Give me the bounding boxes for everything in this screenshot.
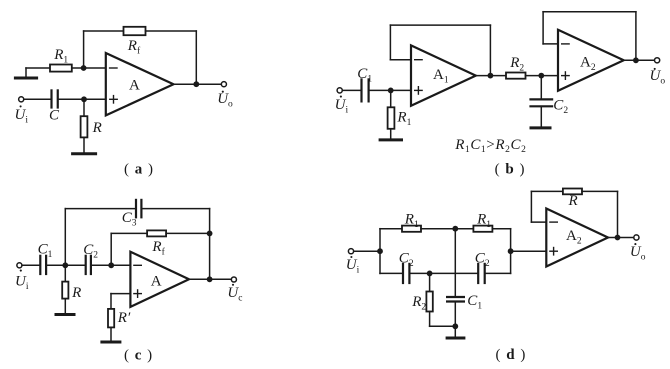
wire R' to ground (c): [110, 328, 112, 341]
minus sign (a): [110, 67, 117, 69]
wire Rf right segment (c): [166, 232, 210, 234]
resistor Rf (a): [124, 27, 146, 35]
wire feedback up A2 (b): [542, 12, 544, 44]
wire feedback up A1 (b): [389, 25, 391, 60]
wire down to R' (c): [110, 294, 112, 309]
capacitor C1 (c): [40, 256, 46, 274]
ground at R1 left end (a): [15, 68, 36, 78]
svg-text:C: C: [49, 107, 60, 123]
wire input to C (a): [24, 98, 50, 100]
node junction at output A2 (b): [633, 57, 639, 63]
svg-text:A: A: [129, 78, 140, 94]
svg-text:R: R: [92, 120, 102, 136]
wire R2 to plus input A2 (b): [526, 75, 559, 77]
wire output (d): [608, 237, 634, 239]
wire feedback left segment (a): [84, 30, 124, 32]
resistor R1 first (d): [402, 226, 421, 232]
wire output A2 (b): [624, 59, 655, 61]
wire minus stub A1 (b): [390, 59, 411, 61]
svg-text:A: A: [151, 274, 162, 290]
capacitor C (a): [52, 90, 58, 107]
wire C1 to ground node (d): [454, 303, 456, 327]
output terminal Uo (d): [634, 235, 639, 240]
op-amp A2 (d): [546, 209, 608, 267]
resistor R1 second (d): [473, 226, 492, 232]
svg-text:( d ): ( d ): [496, 347, 527, 363]
wire input to C1 (c): [22, 264, 40, 266]
svg-text:( c ): ( c ): [124, 347, 153, 363]
resistor R' (c): [108, 309, 114, 328]
node junction at output (c): [207, 276, 213, 282]
wire feedback right segment (a): [146, 30, 197, 32]
resistor Rf (c): [147, 230, 166, 236]
capacitor C3 (c): [136, 200, 141, 217]
resistor R2 (d): [426, 292, 432, 312]
wire center vertical to C1 (d): [454, 229, 456, 296]
input terminal Ui (d): [348, 249, 353, 254]
wire output (a): [174, 83, 222, 85]
minus sign A1 (b): [415, 59, 422, 61]
wire C1 to plus input A1 (b): [370, 89, 411, 91]
svg-text:R′: R′: [117, 310, 131, 326]
wire top left segment (c): [65, 208, 135, 210]
wire R2 branch down (d): [429, 273, 431, 291]
op-amp A (c): [130, 252, 189, 307]
wire C2 to ground (b): [540, 107, 542, 126]
label Ui (a): [15, 105, 29, 125]
plus sign A2 (b): [562, 72, 569, 79]
wire feedback top A2 (b): [543, 11, 636, 13]
label Uo (b): [650, 68, 666, 87]
wire feedback down to output A2 (b): [635, 12, 637, 61]
node junction at plus input (a): [81, 96, 87, 102]
wire R1 to ground (b): [390, 129, 392, 138]
output terminal Uo (a): [221, 82, 226, 87]
label Ui (c): [15, 270, 29, 292]
node junction at output A1 (b): [488, 73, 494, 79]
node junction at output A2 (d): [615, 235, 621, 241]
wire top rail left (d): [380, 228, 402, 230]
svg-text:( b ): ( b ): [495, 161, 526, 177]
capacitor C2 first (d): [403, 264, 409, 283]
label Ui (d): [346, 256, 360, 275]
plus sign A2 (d): [550, 248, 557, 255]
wire left vertical (d): [379, 229, 381, 274]
op-amp A2 (b): [558, 30, 624, 91]
wire C3 down to output (c): [209, 209, 211, 280]
plus sign (c): [134, 290, 141, 297]
capacitor C2 (b): [531, 99, 553, 106]
wire bottom rail right (d): [486, 272, 511, 274]
wire minus stub A2 (b): [543, 43, 558, 45]
input terminal Ui (b): [337, 88, 342, 93]
wire top rail right (d): [492, 228, 510, 230]
minus sign A2 (d): [550, 221, 557, 223]
ground below R (c): [56, 313, 74, 316]
op-amp A1 (b): [411, 45, 476, 105]
label Uo (a): [217, 91, 233, 110]
wire plus input (c): [111, 293, 130, 295]
resistor R1 (a): [50, 65, 72, 72]
wire node to plus input A2 (d): [511, 250, 547, 252]
node junction at plus input A2 (b): [538, 73, 544, 79]
wire feedback down to output (d): [617, 191, 619, 237]
wire node 1 down to R (c): [64, 265, 66, 281]
wire C to plus input (a): [59, 98, 106, 100]
wire R2 bottom to ground node (d): [430, 325, 456, 327]
resistor R1 (b): [388, 107, 395, 129]
top middle node junction (d): [452, 226, 458, 232]
output terminal Uc (c): [231, 277, 236, 282]
wire top rail middle (d): [421, 228, 473, 230]
wire bottom rail middle (d): [411, 272, 478, 274]
input node junction (d): [377, 248, 383, 254]
wire ground to R1 (a): [26, 67, 50, 69]
wire node down to R (a): [83, 99, 85, 116]
wire feedback down to output (a): [195, 31, 197, 84]
svg-text:( a ): ( a ): [124, 161, 154, 177]
wire node 1 up to C3 branch (c): [64, 209, 66, 266]
wire feedback top left (d): [531, 190, 563, 192]
node 2 junction (c): [108, 262, 114, 268]
node 1 junction (c): [62, 262, 68, 268]
right node junction (d): [508, 248, 514, 254]
wire node 2 up to Rf (c): [110, 233, 112, 265]
label Uc (c): [227, 284, 242, 304]
minus sign A2 (b): [562, 43, 569, 45]
wire R to ground (a): [83, 138, 85, 152]
ground below R1 (b): [380, 138, 401, 141]
wire feedback up A2 (d): [530, 191, 532, 222]
label Ui (b): [335, 96, 349, 116]
plus sign (a): [110, 96, 117, 103]
resistor R (c): [62, 282, 68, 299]
wire feedback down to output A1 (b): [489, 25, 491, 76]
capacitor C1 (d): [447, 297, 464, 302]
wire input to C1 (b): [343, 89, 361, 91]
wire R1 to minus input (a): [72, 67, 106, 69]
ground below C2 (b): [531, 126, 550, 129]
svg-text:R: R: [568, 193, 578, 209]
wire R2 to ground node (d): [429, 312, 431, 327]
wire feedback top A1 (b): [390, 24, 490, 26]
output terminal Uo (b): [655, 58, 660, 63]
minus sign (c): [134, 264, 141, 266]
capacitor C2 (c): [86, 256, 91, 274]
svg-text:R: R: [71, 285, 81, 301]
wire input to node (d): [354, 250, 380, 252]
wire C2 to minus input (c): [92, 264, 130, 266]
capacitor C1 (b): [362, 79, 369, 101]
node junction at output (a): [193, 81, 199, 87]
plus sign A1 (b): [415, 87, 422, 94]
bottom node junction for R2 (d): [427, 271, 433, 277]
wire node down to C2 (b): [540, 76, 542, 99]
wire feedback top right (d): [582, 190, 618, 192]
input terminal Ui (a): [19, 97, 24, 102]
ground (d): [447, 326, 464, 338]
wire R to ground (c): [64, 299, 66, 312]
wire A1 output to R2 (b): [476, 75, 506, 77]
resistor R feedback (d): [563, 189, 582, 195]
wire right vertical (d): [510, 229, 512, 274]
wire minus stub A2 (d): [531, 221, 546, 223]
input terminal Ui (c): [17, 263, 22, 268]
node junction at minus input (a): [81, 65, 87, 71]
resistor R (a): [81, 116, 88, 137]
wire top right segment (c): [143, 208, 210, 210]
capacitor C2 second (d): [478, 264, 485, 283]
ground node junction (d): [452, 323, 458, 329]
wire bottom rail left (d): [380, 272, 402, 274]
wire node up to feedback (a): [83, 31, 85, 68]
wire node down to R1 (b): [390, 90, 392, 107]
wire C1 to node 1 (c): [47, 264, 85, 266]
node junction at plus input A1 (b): [388, 88, 394, 94]
ground below R' (c): [102, 341, 120, 344]
resistor R2 (b): [506, 73, 526, 79]
wire output (c): [189, 278, 231, 280]
node junction Rf to output branch (c): [207, 231, 213, 237]
wire Rf left segment (c): [111, 232, 147, 234]
ground below R (a): [73, 152, 96, 155]
op-amp A (a): [106, 53, 174, 115]
label Uo (d): [630, 243, 646, 262]
